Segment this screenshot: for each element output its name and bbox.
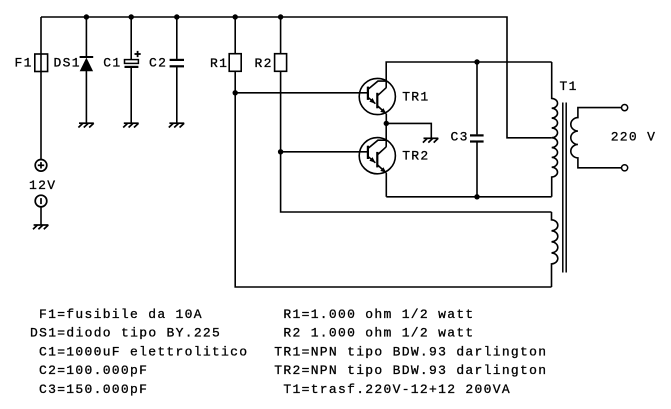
svg-text:R1=1.000 ohm 1/2 watt: R1=1.000 ohm 1/2 watt (283, 307, 474, 322)
svg-text:F1: F1 (15, 55, 33, 70)
svg-text:12V: 12V (29, 178, 56, 193)
svg-text:F1=fusibile da 10A: F1=fusibile da 10A (39, 307, 203, 322)
svg-text:C1=1000uF elettrolitico: C1=1000uF elettrolitico (39, 344, 248, 359)
svg-text:C2: C2 (149, 56, 167, 71)
svg-text:TR1=NPN tipo BDW.93 darlington: TR1=NPN tipo BDW.93 darlington (274, 344, 547, 359)
svg-text:TR2: TR2 (402, 149, 429, 164)
svg-text:C1: C1 (103, 55, 121, 70)
svg-text:R2 1.000 ohm 1/2 watt: R2 1.000 ohm 1/2 watt (283, 326, 474, 341)
svg-text:T1=trasf.220V-12+12 200VA: T1=trasf.220V-12+12 200VA (283, 382, 511, 397)
svg-text:R1: R1 (210, 56, 228, 71)
svg-text:TR1: TR1 (402, 90, 429, 105)
svg-text:TR2=NPN tipo BDW.93 darlington: TR2=NPN tipo BDW.93 darlington (274, 363, 547, 378)
svg-text:C3: C3 (451, 129, 469, 144)
svg-text:DS1=diodo tipo BY.225: DS1=diodo tipo BY.225 (30, 326, 221, 341)
svg-text:DS1: DS1 (54, 55, 81, 70)
svg-text:R2: R2 (255, 56, 273, 71)
svg-text:C2=100.000pF: C2=100.000pF (39, 363, 148, 378)
svg-text:T1: T1 (560, 79, 578, 94)
svg-text:220 V: 220 V (611, 129, 657, 144)
svg-text:C3=150.000pF: C3=150.000pF (39, 382, 148, 397)
